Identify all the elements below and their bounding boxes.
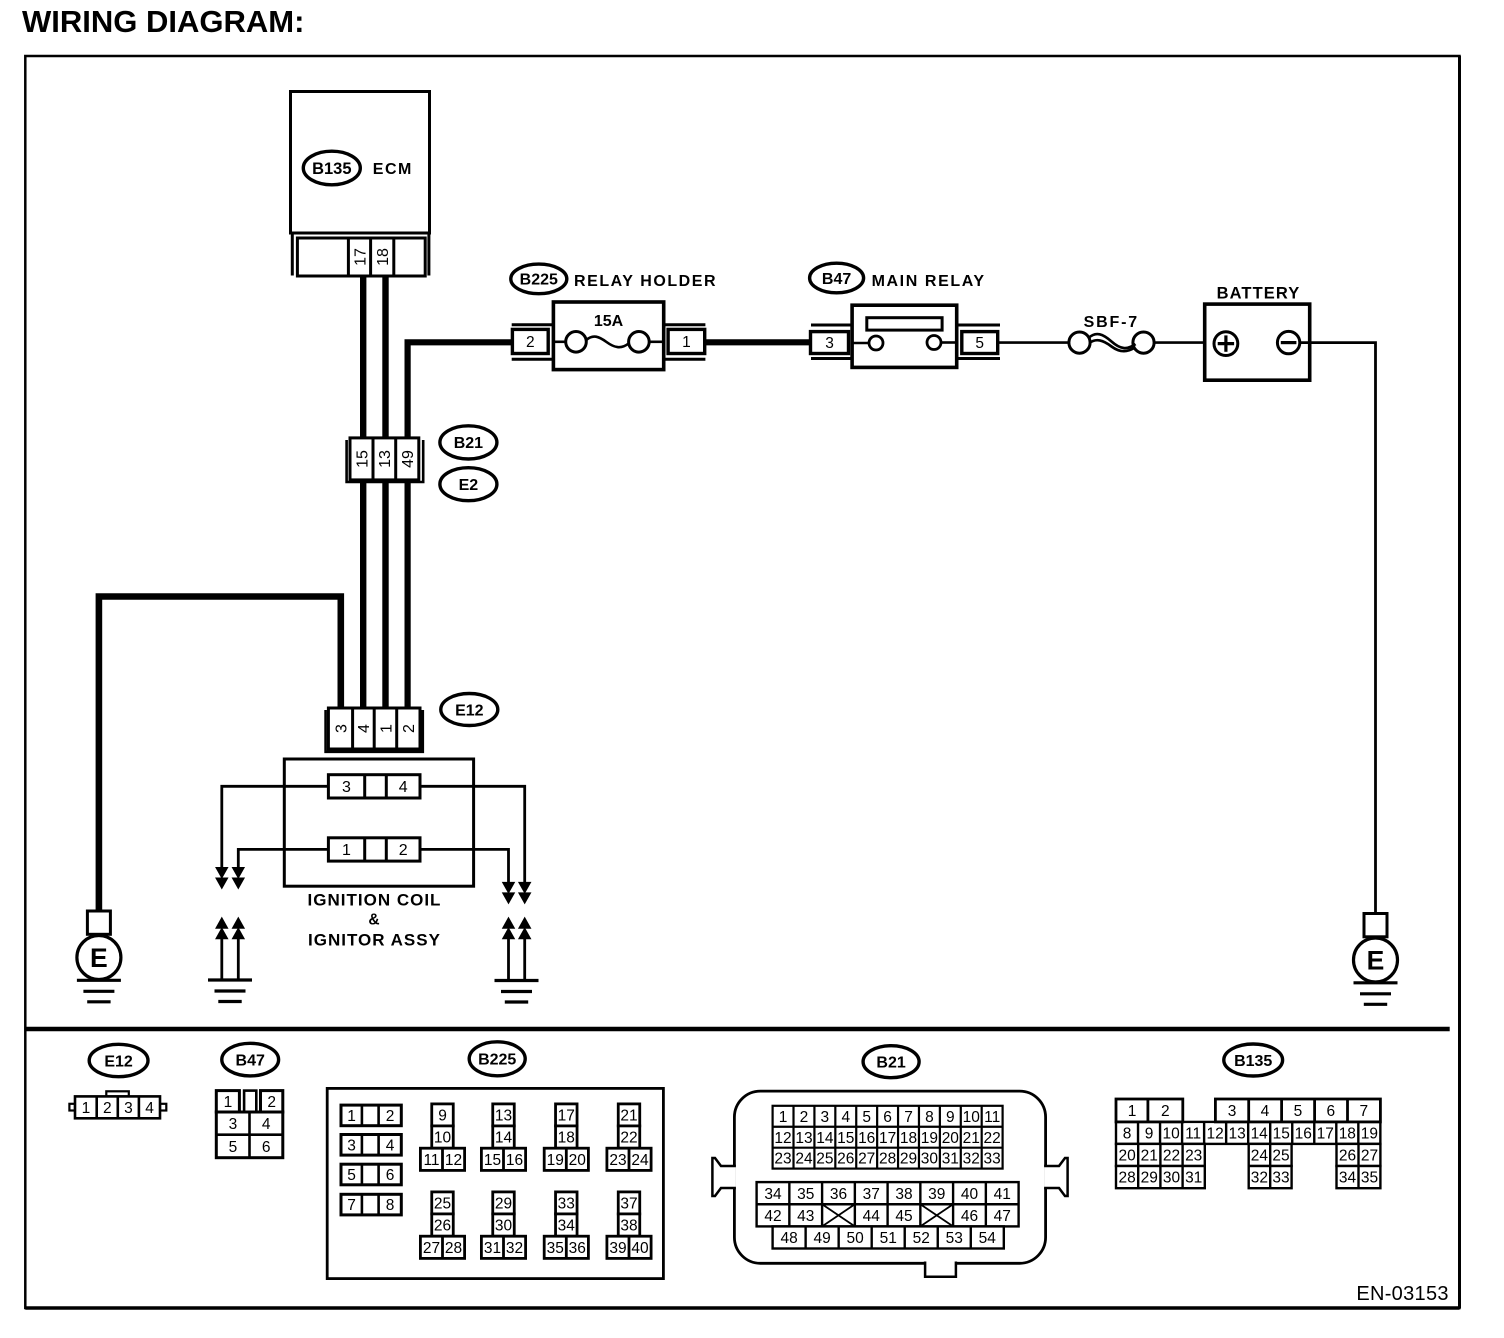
svg-text:10: 10: [1162, 1125, 1180, 1142]
ground E circle: [1354, 938, 1398, 982]
label B21 oval (bottom): [863, 1046, 919, 1078]
svg-text:37: 37: [620, 1195, 637, 1212]
ground connector square: [1364, 914, 1387, 937]
svg-text:3: 3: [347, 1137, 356, 1154]
label B21 oval: [440, 426, 497, 459]
B225 pins 21-24: [618, 1104, 640, 1126]
svg-text:E12: E12: [455, 702, 484, 719]
B225 pins 5-6: [341, 1164, 401, 1185]
svg-text:WIRING DIAGRAM:: WIRING DIAGRAM:: [22, 4, 304, 39]
svg-text:27: 27: [1361, 1148, 1378, 1165]
svg-text:36: 36: [569, 1240, 586, 1257]
wire: coil pin 4 to spark output (right outer): [420, 786, 525, 883]
svg-text:42: 42: [764, 1208, 781, 1225]
svg-text:2: 2: [401, 724, 418, 733]
pin 5 connector: [957, 324, 1000, 327]
right spark gap arrows and ground: [503, 918, 515, 929]
svg-text:51: 51: [880, 1230, 897, 1247]
svg-text:1: 1: [82, 1100, 91, 1117]
pin 2 connector: [512, 323, 554, 326]
svg-text:14: 14: [1251, 1125, 1269, 1142]
svg-text:25: 25: [816, 1151, 833, 1168]
ground symbol: [77, 979, 121, 982]
svg-text:12: 12: [774, 1130, 791, 1147]
svg-text:27: 27: [858, 1151, 875, 1168]
svg-text:47: 47: [994, 1208, 1011, 1225]
svg-text:39: 39: [609, 1240, 626, 1257]
svg-text:37: 37: [863, 1186, 880, 1203]
svg-text:29: 29: [900, 1151, 917, 1168]
svg-text:11: 11: [1185, 1125, 1201, 1142]
svg-text:1: 1: [224, 1094, 233, 1111]
svg-text:6: 6: [262, 1139, 271, 1156]
label B225 oval (bottom): [469, 1042, 525, 1076]
svg-text:15: 15: [1273, 1125, 1290, 1142]
svg-text:10: 10: [963, 1109, 981, 1126]
svg-text:2: 2: [526, 334, 535, 351]
fuse holder box B225: [553, 302, 663, 370]
svg-text:17: 17: [879, 1130, 896, 1147]
svg-text:26: 26: [837, 1151, 854, 1168]
svg-text:17: 17: [352, 248, 369, 266]
svg-text:2: 2: [267, 1094, 276, 1111]
svg-text:31: 31: [484, 1240, 501, 1257]
coil connector pins 3-4: [328, 775, 420, 798]
pin 1 connector: [664, 323, 706, 326]
svg-text:4: 4: [841, 1109, 850, 1126]
svg-text:1: 1: [682, 334, 691, 351]
battery plus terminal: [1214, 332, 1238, 356]
svg-text:25: 25: [434, 1195, 451, 1212]
svg-text:38: 38: [620, 1218, 637, 1235]
svg-text:41: 41: [994, 1186, 1011, 1203]
svg-text:24: 24: [795, 1151, 813, 1168]
svg-text:14: 14: [495, 1130, 513, 1147]
B21 bottom notch: [925, 1262, 956, 1277]
svg-text:24: 24: [631, 1152, 649, 1169]
svg-text:7: 7: [1359, 1103, 1368, 1120]
svg-text:40: 40: [961, 1186, 979, 1203]
svg-text:31: 31: [1185, 1170, 1202, 1187]
svg-text:4: 4: [399, 779, 408, 796]
B225 pins 7-8: [341, 1194, 401, 1215]
svg-text:1: 1: [378, 724, 395, 733]
svg-text:34: 34: [558, 1218, 576, 1235]
svg-text:31: 31: [942, 1151, 959, 1168]
svg-text:13: 13: [495, 1107, 512, 1124]
B135 pins 20-23 / 28-31: [1116, 1144, 1205, 1166]
svg-text:B225: B225: [478, 1052, 516, 1069]
B225 pins 33-36: [556, 1192, 578, 1214]
svg-text:20: 20: [569, 1152, 587, 1169]
svg-text:52: 52: [913, 1230, 930, 1247]
connector E12 face view: [106, 1091, 129, 1096]
B21 blocked cavity X: [920, 1204, 953, 1226]
svg-text:32: 32: [1251, 1170, 1268, 1187]
svg-text:1: 1: [347, 1108, 356, 1125]
relay contacts: [852, 342, 869, 345]
svg-text:35: 35: [547, 1240, 564, 1257]
svg-text:6: 6: [883, 1109, 892, 1126]
B21 bottom pin row 48-54: [773, 1226, 1004, 1248]
svg-text:24: 24: [1251, 1148, 1269, 1165]
svg-text:21: 21: [1141, 1148, 1158, 1165]
svg-text:54: 54: [979, 1230, 997, 1247]
svg-text:8: 8: [386, 1197, 395, 1214]
svg-text:5: 5: [347, 1167, 356, 1184]
wire: relay holder pin 2 to E12 pin 2: [408, 342, 513, 709]
svg-text:21: 21: [963, 1130, 980, 1147]
wire: battery minus to right E ground: [1300, 343, 1376, 913]
svg-text:SBF-7: SBF-7: [1084, 314, 1139, 331]
svg-text:MAIN RELAY: MAIN RELAY: [872, 273, 986, 290]
svg-text:30: 30: [1163, 1170, 1181, 1187]
svg-text:1: 1: [342, 842, 351, 859]
B225 pins 29-32: [493, 1192, 515, 1214]
svg-text:E2: E2: [459, 477, 479, 494]
ground symbol: [1354, 981, 1398, 984]
svg-text:RELAY HOLDER: RELAY HOLDER: [574, 273, 717, 290]
svg-text:7: 7: [904, 1109, 913, 1126]
svg-text:49: 49: [814, 1230, 831, 1247]
connector B135 face view: [1116, 1122, 1380, 1144]
svg-text:19: 19: [921, 1130, 938, 1147]
svg-text:B21: B21: [454, 435, 483, 452]
svg-text:12: 12: [1207, 1125, 1224, 1142]
svg-text:23: 23: [774, 1151, 791, 1168]
connector E12 bracket: [326, 710, 423, 752]
separator line: [25, 1027, 1449, 1031]
battery BAT box: [1205, 304, 1310, 380]
ground connector square: [87, 911, 110, 934]
svg-text:9: 9: [438, 1107, 447, 1124]
svg-text:20: 20: [1118, 1148, 1136, 1165]
connector B21/E2 pin strip: [350, 438, 419, 480]
svg-text:1: 1: [779, 1109, 788, 1126]
svg-text:16: 16: [1295, 1125, 1312, 1142]
label B135 oval (bottom): [1224, 1044, 1283, 1076]
svg-text:33: 33: [984, 1151, 1001, 1168]
svg-text:21: 21: [620, 1107, 637, 1124]
svg-text:8: 8: [1123, 1125, 1132, 1142]
svg-text:49: 49: [400, 450, 417, 468]
svg-text:4: 4: [356, 724, 373, 733]
ignition coil box: [284, 759, 473, 886]
svg-text:B47: B47: [822, 271, 851, 288]
svg-text:5: 5: [862, 1109, 871, 1126]
svg-text:22: 22: [620, 1130, 637, 1147]
B225 pins 25-28: [432, 1192, 454, 1214]
svg-text:53: 53: [946, 1230, 963, 1247]
svg-text:3: 3: [124, 1100, 133, 1117]
svg-text:20: 20: [942, 1130, 960, 1147]
B135 pins 24-25 / 32-33: [1249, 1144, 1292, 1166]
svg-text:14: 14: [816, 1130, 834, 1147]
svg-text:12: 12: [445, 1152, 462, 1169]
svg-text:32: 32: [506, 1240, 523, 1257]
svg-text:4: 4: [1261, 1103, 1270, 1120]
svg-text:28: 28: [879, 1151, 896, 1168]
svg-text:B47: B47: [236, 1052, 265, 1069]
svg-text:35: 35: [797, 1186, 814, 1203]
svg-text:E: E: [1367, 946, 1385, 976]
wire: main relay pin 5 to fusible link SBF-7: [998, 341, 1069, 344]
svg-text:13: 13: [377, 450, 394, 468]
fuse 15A symbol: [553, 340, 566, 343]
B225 pins 13-16: [493, 1104, 515, 1126]
svg-text:4: 4: [262, 1116, 271, 1133]
main relay box B47: [852, 305, 957, 367]
B225 pins 1-2: [341, 1105, 401, 1126]
svg-text:IGNITOR ASSY: IGNITOR ASSY: [308, 930, 441, 949]
svg-text:15A: 15A: [594, 313, 624, 330]
svg-text:32: 32: [963, 1151, 980, 1168]
svg-text:28: 28: [445, 1240, 462, 1257]
svg-text:40: 40: [631, 1240, 649, 1257]
svg-text:18: 18: [1339, 1125, 1356, 1142]
svg-text:26: 26: [434, 1218, 451, 1235]
svg-text:3: 3: [1228, 1103, 1237, 1120]
svg-text:36: 36: [830, 1186, 847, 1203]
ECM connector B135 pin strip: [297, 238, 425, 276]
wire: coil pin 3 to spark output (left outer): [222, 786, 329, 869]
svg-text:8: 8: [925, 1109, 934, 1126]
svg-text:3: 3: [821, 1109, 830, 1126]
B135 pins 3-7: [1215, 1099, 1380, 1122]
battery minus terminal: [1277, 331, 1299, 353]
svg-text:BATTERY: BATTERY: [1217, 284, 1301, 302]
svg-text:IGNITION COIL: IGNITION COIL: [308, 891, 442, 910]
svg-text:5: 5: [1294, 1103, 1303, 1120]
svg-text:29: 29: [495, 1195, 512, 1212]
svg-text:5: 5: [975, 335, 984, 352]
wire: ground wire from left E ground to E12 pin 3: [99, 597, 341, 913]
wire: coil pin 2 to spark output (right inner): [420, 849, 509, 883]
coil connector pins 1-2: [328, 838, 420, 861]
svg-text:30: 30: [921, 1151, 939, 1168]
connector B225 face view box: [327, 1088, 663, 1278]
B21 top pin grid 1-33: [773, 1106, 1003, 1169]
svg-text:B225: B225: [520, 272, 558, 289]
label E12 oval: [441, 694, 498, 726]
pin 3 connector: [811, 324, 852, 327]
B225 pins 37-40: [618, 1192, 640, 1214]
label E12 oval (bottom): [89, 1044, 148, 1076]
svg-text:15: 15: [354, 450, 371, 468]
svg-text:16: 16: [858, 1130, 875, 1147]
svg-text:3: 3: [825, 335, 834, 352]
B21 right mounting tab: [1044, 1158, 1068, 1196]
svg-text:23: 23: [609, 1152, 626, 1169]
svg-text:B135: B135: [1234, 1053, 1272, 1070]
label B225 oval: [511, 264, 567, 294]
svg-text:9: 9: [946, 1109, 955, 1126]
svg-text:&: &: [368, 912, 379, 929]
svg-text:3: 3: [333, 724, 350, 733]
svg-text:2: 2: [103, 1100, 112, 1117]
svg-text:ECM: ECM: [373, 161, 413, 178]
svg-text:39: 39: [928, 1186, 945, 1203]
ground E circle: [77, 936, 121, 980]
B21 left mounting tab: [712, 1158, 736, 1196]
connector B21 face view outline: [734, 1091, 1045, 1263]
ECM connector bracket: [291, 235, 294, 276]
svg-text:19: 19: [1361, 1125, 1378, 1142]
fusible link SBF-7 symbol: [1069, 332, 1090, 353]
label E2 oval: [440, 468, 497, 501]
svg-text:11: 11: [423, 1152, 439, 1169]
svg-text:34: 34: [764, 1186, 782, 1203]
svg-text:23: 23: [1185, 1148, 1202, 1165]
svg-text:18: 18: [375, 248, 392, 266]
svg-text:17: 17: [558, 1107, 575, 1124]
connector B21/E2 bracket: [347, 440, 424, 482]
wire: ECM pin 18 to E12 pin 1: [382, 275, 388, 709]
svg-text:19: 19: [547, 1152, 564, 1169]
svg-text:B21: B21: [876, 1054, 905, 1071]
svg-text:B135: B135: [312, 160, 351, 178]
connector label B135 oval: [303, 151, 360, 185]
label B47 oval (bottom): [222, 1043, 279, 1076]
svg-text:27: 27: [423, 1240, 440, 1257]
svg-text:22: 22: [984, 1130, 1001, 1147]
svg-text:48: 48: [780, 1230, 797, 1247]
wire: ECM pin 17 to E12 pin 4: [360, 275, 366, 709]
svg-text:35: 35: [1361, 1170, 1378, 1187]
svg-text:10: 10: [434, 1130, 452, 1147]
svg-text:2: 2: [1161, 1103, 1170, 1120]
svg-text:1: 1: [1128, 1103, 1137, 1120]
svg-text:7: 7: [347, 1197, 356, 1214]
svg-text:25: 25: [1272, 1148, 1289, 1165]
svg-text:EN-03153: EN-03153: [1356, 1283, 1448, 1305]
connector B47 face view: [216, 1091, 239, 1112]
B21 blocked cavity X: [822, 1204, 855, 1226]
svg-text:6: 6: [1327, 1103, 1336, 1120]
svg-text:26: 26: [1339, 1148, 1356, 1165]
svg-text:15: 15: [837, 1130, 854, 1147]
svg-text:2: 2: [386, 1108, 395, 1125]
svg-text:11: 11: [984, 1109, 1000, 1126]
svg-text:2: 2: [800, 1109, 809, 1126]
svg-text:13: 13: [795, 1130, 812, 1147]
svg-text:16: 16: [506, 1152, 523, 1169]
relay coil symbol: [867, 318, 942, 330]
svg-text:22: 22: [1163, 1148, 1180, 1165]
svg-text:6: 6: [386, 1167, 395, 1184]
svg-text:30: 30: [495, 1218, 513, 1235]
B21 mid pin grid 34-47: [757, 1182, 1019, 1226]
svg-text:43: 43: [797, 1208, 814, 1225]
svg-text:50: 50: [847, 1230, 865, 1247]
B225 pins 9-12: [432, 1104, 454, 1126]
svg-text:13: 13: [1229, 1125, 1246, 1142]
svg-text:9: 9: [1145, 1125, 1154, 1142]
svg-text:3: 3: [342, 779, 351, 796]
svg-text:4: 4: [386, 1137, 395, 1154]
svg-text:44: 44: [863, 1208, 881, 1225]
label B47 oval: [810, 263, 864, 293]
svg-text:18: 18: [558, 1130, 575, 1147]
svg-text:45: 45: [895, 1208, 912, 1225]
svg-text:4: 4: [145, 1100, 154, 1117]
ECM box U1: [291, 92, 430, 234]
svg-text:5: 5: [229, 1139, 238, 1156]
B225 pins 17-20: [556, 1104, 578, 1126]
left spark gap arrows and ground: [216, 918, 228, 929]
svg-text:2: 2: [399, 842, 408, 859]
svg-text:3: 3: [229, 1116, 238, 1133]
svg-text:38: 38: [895, 1186, 912, 1203]
wire: relay holder pin 1 to main relay pin 3: [705, 339, 811, 345]
svg-text:17: 17: [1317, 1125, 1334, 1142]
B135 pins 26-27 / 34-35: [1337, 1144, 1381, 1166]
connector E12 pin strip: [328, 708, 420, 749]
svg-text:28: 28: [1118, 1170, 1135, 1187]
wire: coil pin 1 to spark output (left inner): [238, 849, 328, 869]
svg-text:33: 33: [1272, 1170, 1289, 1187]
svg-text:46: 46: [961, 1208, 978, 1225]
svg-text:E12: E12: [104, 1053, 133, 1070]
wire: SBF-7 to battery: [1154, 341, 1214, 344]
B225 pins 3-4: [341, 1135, 401, 1156]
B135 pins 1-2: [1116, 1099, 1183, 1122]
svg-text:34: 34: [1339, 1170, 1357, 1187]
svg-text:29: 29: [1141, 1170, 1158, 1187]
svg-text:18: 18: [900, 1130, 917, 1147]
svg-text:E: E: [90, 943, 108, 973]
svg-text:15: 15: [484, 1152, 501, 1169]
svg-text:33: 33: [558, 1195, 575, 1212]
